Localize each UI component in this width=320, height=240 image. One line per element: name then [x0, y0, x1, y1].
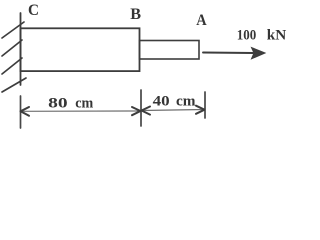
dim extension line middle	[140, 90, 142, 126]
wall hatch 4	[2, 78, 26, 92]
dim arrow right (points right)	[196, 106, 205, 114]
dim line 80cm	[22, 110, 140, 112]
svg-text:100: 100	[237, 27, 257, 43]
dim line 40cm	[142, 110, 204, 111]
wall hatch 1	[2, 22, 24, 38]
force arrowhead	[252, 48, 266, 59]
svg-text:80: 80	[48, 96, 67, 112]
svg-text:kN: kN	[267, 27, 287, 43]
dim arrow middle-left (points right)	[132, 107, 141, 115]
big bar CB	[21, 28, 140, 71]
svg-text:cm: cm	[176, 93, 196, 109]
dim extension line right	[204, 92, 206, 118]
svg-text:B: B	[130, 6, 141, 23]
svg-text:A: A	[196, 12, 207, 29]
force arrow shaft	[203, 52, 253, 55]
svg-text:C: C	[28, 2, 39, 19]
dim arrow middle-right (points left)	[142, 107, 151, 115]
svg-text:40: 40	[153, 93, 170, 109]
dim extension line left	[20, 96, 22, 128]
small bar BA	[140, 41, 200, 60]
svg-text:cm: cm	[75, 96, 93, 112]
wall hatch 3	[2, 58, 22, 74]
wall hatch 2	[2, 40, 22, 56]
wall line	[20, 13, 22, 85]
dim arrow left (points left)	[21, 107, 30, 116]
